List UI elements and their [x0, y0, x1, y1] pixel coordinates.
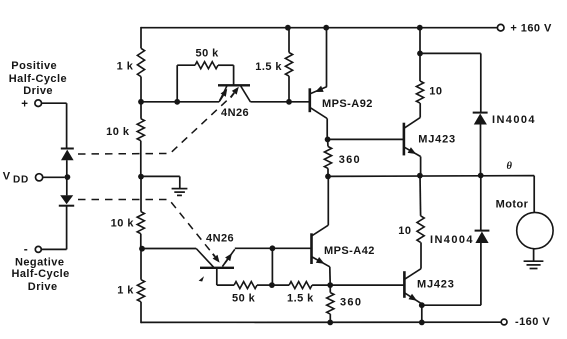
photon arrow into 4N26 lower — [213, 254, 215, 257]
svg-text:Motor: Motor — [496, 199, 529, 211]
node 50k tap junction — [174, 99, 180, 105]
svg-text:V: V — [3, 170, 11, 182]
node Q4 emitter / diode branch — [419, 302, 425, 308]
node bottom rail / MJ423 emitter junction — [419, 320, 425, 326]
wire Q1 emitter to top rail — [326, 28, 328, 87]
terminal VDD — [36, 174, 43, 181]
wire Q1 collector down to node — [326, 118, 328, 139]
transistor Q3 MPS-A42 — [310, 233, 313, 264]
terminal negative drive input — [35, 246, 41, 252]
photon tick 4N26 lower — [199, 276, 204, 281]
svg-text:θ: θ — [507, 161, 513, 172]
motor M1 — [517, 212, 553, 248]
resistor R12 10 lower — [417, 216, 424, 243]
svg-text:-: - — [24, 242, 28, 256]
phototransistor U2A 4N26 lower — [200, 267, 234, 269]
wire node to lower 10k — [140, 177, 142, 212]
ground motor — [524, 260, 544, 262]
svg-text:50 k: 50 k — [232, 293, 256, 305]
wire 360 bottom to theta node — [327, 168, 329, 176]
svg-text:10 k: 10 k — [111, 218, 135, 230]
svg-text:360: 360 — [339, 154, 361, 166]
node diode branch junction — [417, 51, 423, 57]
wire theta to motor — [533, 176, 535, 213]
node bottom rail / 360 junction — [327, 320, 333, 326]
resistor R10 1.5k lower — [289, 282, 312, 289]
wire theta node down to Q3 collector — [327, 176, 329, 225]
emitter arrow Q2 — [405, 147, 421, 156]
node 1k/10k junction — [138, 99, 144, 105]
wire left column top segment — [140, 27, 142, 48]
phototransistor U1A 4N26 upper — [218, 84, 250, 86]
wire 50k to node — [257, 284, 272, 286]
svg-text:MPS-A92: MPS-A92 — [322, 98, 373, 110]
svg-text:+ 160 V: + 160 V — [510, 23, 552, 35]
resistor R8 10 upper — [416, 81, 423, 103]
emitter arrow Q3 — [312, 257, 330, 267]
svg-text:10: 10 — [429, 86, 442, 98]
optical path from LED D2 (dashed) — [78, 200, 215, 257]
node 50k/1.5k tap junction upper — [270, 245, 276, 251]
wire node to 10k — [140, 102, 142, 119]
svg-text:Positive: Positive — [11, 60, 57, 72]
wire diode to theta node — [480, 125, 482, 176]
node top rail / 1.5k junction — [285, 25, 291, 31]
node Q1 collector / 360 / MJ423 base — [325, 137, 331, 143]
wire diode branch top — [420, 52, 481, 54]
resistor R3 10k lower — [137, 212, 144, 234]
node VDD junction — [65, 174, 71, 180]
wire chain node to MJ423 base — [330, 284, 404, 286]
node theta / MJ423 junction — [417, 173, 423, 179]
transistor Q4 MJ423 lower — [403, 271, 406, 298]
wire -160V bottom rail — [141, 321, 501, 323]
node 10k/1k junction — [139, 246, 145, 252]
photon arrow 2 into 4N26 upper — [231, 93, 235, 98]
wire node to 360 top — [327, 139, 329, 146]
svg-text:50 k: 50 k — [196, 48, 220, 60]
node Q3 emitter / 1.5k / 360 junction — [327, 282, 333, 288]
svg-text:4N26: 4N26 — [221, 107, 249, 119]
LED D2 optocoupler diode lower — [60, 195, 73, 204]
wire diode branch bottom — [422, 304, 481, 306]
node theta-360 junction — [325, 174, 331, 180]
svg-text:360: 360 — [340, 297, 362, 309]
wire input to LED column — [42, 102, 67, 104]
wire node to 360 lower — [329, 285, 331, 293]
LED D1 optocoupler diode upper — [61, 148, 74, 150]
wire VDD terminal to LED column — [43, 176, 65, 178]
wire VDD node to ground — [141, 175, 180, 177]
wire +160V top rail — [141, 27, 497, 29]
resistor R4 1k lower — [137, 280, 144, 302]
wire 4N26 base stub lower — [216, 268, 218, 285]
wire 10k to VDD node — [140, 141, 142, 177]
wire 1k node to 4N26 upper — [141, 101, 219, 103]
wire 50k left lead — [177, 64, 195, 66]
optical path from LED D1 (dashed) — [78, 99, 229, 155]
wire theta node horizontal — [328, 175, 534, 178]
wire 1.5k top lead — [288, 28, 290, 53]
svg-text:1.5 k: 1.5 k — [255, 61, 282, 73]
emitter arrow Q4 — [405, 293, 422, 304]
wire node to 1.5k — [272, 284, 289, 286]
resistor R5 50k upper — [195, 62, 218, 69]
svg-text:-160 V: -160 V — [515, 316, 550, 328]
wire lower node to 4N26 — [143, 248, 197, 250]
wire 10 lower to theta node — [419, 176, 422, 216]
resistor R7 360 upper — [324, 147, 331, 169]
svg-text:MJ423: MJ423 — [417, 279, 455, 291]
resistor R11 360 lower — [327, 293, 334, 314]
wire Q3 emitter down to chain node — [329, 267, 331, 285]
resistor R9 50k lower — [234, 282, 257, 289]
node 50k/1.5k junction — [269, 282, 275, 288]
terminal positive drive input — [35, 100, 42, 107]
resistor R6 1.5k upper — [285, 53, 292, 77]
wire 10 ohm top to rail — [419, 28, 421, 81]
emitter arrow 4N26 lower — [222, 249, 234, 266]
transistor Q1 MPS-A92 — [308, 88, 311, 112]
terminal -160 V — [501, 319, 507, 325]
node 1.5k junction — [286, 99, 292, 105]
wire 1k to node — [140, 77, 142, 102]
wire 50k left stub — [176, 65, 178, 102]
svg-text:Drive: Drive — [23, 85, 53, 97]
wire 4N26 to MPS-A42 base — [235, 247, 311, 249]
node top rail / MJ423 collector junction — [417, 25, 423, 31]
wire Q4 collector to 10 ohm — [420, 242, 422, 268]
wire 1k to bottom rail — [140, 302, 142, 323]
svg-text:IN4004: IN4004 — [492, 114, 536, 126]
terminal +160 V — [497, 24, 504, 31]
svg-text:1.5 k: 1.5 k — [287, 293, 314, 305]
svg-text:10 k: 10 k — [106, 126, 130, 138]
wire Q4 emitter to rail — [421, 304, 423, 323]
photon arrow 1 into 4N26 upper — [220, 95, 223, 100]
wire 360 lower to rail — [329, 314, 331, 322]
wire VDD node to LED2 — [66, 177, 68, 195]
svg-text:IN4004: IN4004 — [430, 234, 474, 246]
resistor R1 1k upper — [137, 48, 144, 76]
svg-text:Half-Cycle: Half-Cycle — [9, 73, 67, 85]
svg-text:Half-Cycle: Half-Cycle — [11, 268, 69, 280]
svg-text:1 k: 1 k — [117, 285, 134, 297]
wire 1.5k bottom lead — [288, 76, 290, 102]
resistor R2 10k upper — [137, 119, 144, 141]
svg-text:DD: DD — [13, 175, 29, 186]
svg-text:4N26: 4N26 — [206, 233, 234, 245]
svg-text:Drive: Drive — [28, 281, 58, 293]
diode D4 1N4004 lower — [475, 230, 490, 232]
wire lower diode to theta wire — [480, 176, 482, 231]
wire motor to ground — [533, 249, 535, 261]
wire tap vertical — [271, 248, 273, 285]
wire 50k right lead to base stub — [218, 64, 234, 66]
ground — [172, 188, 188, 190]
diode D3 1N4004 upper — [473, 112, 488, 114]
svg-text:10: 10 — [398, 225, 411, 237]
wire Q1 collector node to MJ423 base — [328, 138, 404, 140]
wire 10k to node — [140, 234, 142, 249]
svg-text:+: + — [21, 99, 28, 111]
wire Q2 collector up to 10 ohm — [419, 103, 421, 118]
svg-text:MPS-A42: MPS-A42 — [324, 245, 375, 257]
node theta / diode junction — [478, 173, 484, 179]
wire 1.5k to emitter node — [312, 284, 330, 286]
node top rail / MPS-A92 emitter junction — [323, 25, 329, 31]
wire 4N26 emitter to MPS-A92 base — [250, 101, 309, 103]
wire node to 1k — [140, 249, 142, 280]
wire Q2 emitter to theta wire — [420, 157, 422, 177]
svg-text:1 k: 1 k — [117, 61, 134, 73]
svg-text:Negative: Negative — [15, 256, 64, 268]
svg-text:MJ423: MJ423 — [418, 133, 456, 145]
emitter arrow Q1 (points to bar) — [311, 87, 327, 94]
node VDD column junction — [138, 174, 144, 180]
transistor Q2 MJ423 upper — [403, 123, 406, 156]
wire LED1 to VDD node — [66, 160, 68, 177]
wire LED2 to negative terminal — [66, 206, 68, 250]
